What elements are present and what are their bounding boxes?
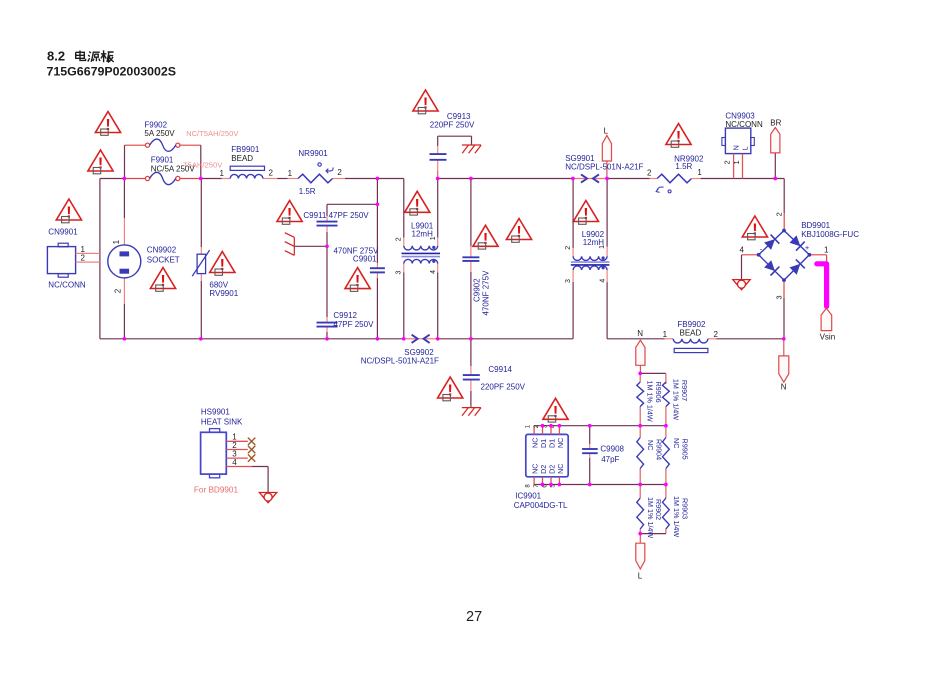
svg-text:1: 1 <box>220 169 225 178</box>
svg-text:5A 250V: 5A 250V <box>144 129 175 138</box>
svg-text:F9902: F9902 <box>144 120 167 129</box>
svg-text:1: 1 <box>288 169 293 178</box>
svg-text:1M 1% 1/4W: 1M 1% 1/4W <box>646 497 655 538</box>
svg-text:1: 1 <box>732 160 741 164</box>
svg-text:1: 1 <box>112 239 121 244</box>
svg-text:2: 2 <box>647 169 652 178</box>
wire IC9901 bottom interconnect <box>534 484 666 486</box>
warning triangle near F9901 <box>88 150 113 174</box>
svg-text:4: 4 <box>232 458 237 467</box>
ferrite bead FB9901 <box>230 166 264 178</box>
svg-text:NR9901: NR9901 <box>298 149 328 158</box>
svg-text:L: L <box>604 127 609 136</box>
junction dots C9908 <box>588 424 592 487</box>
fuse F9902 <box>145 139 180 151</box>
warning triangle near CN9901 <box>56 199 81 223</box>
svg-text:2: 2 <box>269 168 274 177</box>
svg-text:FB9901: FB9901 <box>231 145 260 154</box>
thick magenta wire Vsin <box>817 264 827 307</box>
svg-text:47PF 250V: 47PF 250V <box>333 320 374 329</box>
svg-text:1: 1 <box>430 236 437 240</box>
chassis ground near C9911 <box>285 233 295 256</box>
svg-text:BR: BR <box>770 118 781 127</box>
svg-text:4: 4 <box>430 270 437 274</box>
svg-text:2: 2 <box>81 254 86 263</box>
warning triangle pair right of C9902 <box>473 225 498 249</box>
net flag L (top) <box>602 135 611 178</box>
warning triangle near F9902 <box>95 112 120 136</box>
svg-text:CAP004DG-TL: CAP004DG-TL <box>514 501 568 510</box>
svg-text:NC/DSPL-501N-A21F: NC/DSPL-501N-A21F <box>361 356 439 365</box>
svg-text:3: 3 <box>396 271 403 275</box>
svg-text:R9907: R9907 <box>680 380 689 401</box>
svg-text:3: 3 <box>774 295 783 299</box>
wire main live line segments <box>100 178 784 180</box>
warning triangle near C9911 <box>277 201 302 225</box>
chassis ground below C9914 <box>462 408 481 416</box>
junction dots main line <box>123 177 778 181</box>
svg-text:1.5R: 1.5R <box>299 187 316 196</box>
svg-text:CN9902: CN9902 <box>147 246 177 255</box>
warning triangle near CN9902 <box>150 268 175 292</box>
svg-text:4: 4 <box>600 279 607 283</box>
wire C9911 branch vertical <box>326 204 328 338</box>
capacitor C9908 <box>582 449 598 453</box>
svg-text:C9911 47PF 250V: C9911 47PF 250V <box>303 211 369 220</box>
junction dot C9911 top link <box>376 202 380 206</box>
junction dots IC9901 pins <box>541 424 562 487</box>
choke L9901 <box>402 246 441 264</box>
svg-text:1: 1 <box>81 245 86 254</box>
IC9901 pin names bottom row <box>531 464 565 474</box>
net flag L (bottom) <box>636 534 645 569</box>
svg-text:R9905: R9905 <box>681 439 690 460</box>
svg-text:For BD9901: For BD9901 <box>194 486 239 495</box>
svg-text:Vsin: Vsin <box>820 332 836 341</box>
svg-text:BEAD: BEAD <box>680 329 702 338</box>
bridge rectifier BD9901 <box>757 229 812 282</box>
svg-text:SOCKET: SOCKET <box>147 255 180 264</box>
wire L9902 right leg <box>606 179 608 339</box>
fuse F9901 <box>145 172 180 184</box>
spark gap SG9902 <box>412 335 430 343</box>
wire bridge pin1 stub <box>809 255 826 262</box>
resistor R9905 <box>663 438 670 469</box>
svg-text:1: 1 <box>697 168 702 177</box>
junction dot chassis link <box>325 244 329 248</box>
wire fuse top branch <box>125 145 201 178</box>
svg-text:1: 1 <box>599 245 606 249</box>
wire right bottom bus <box>607 338 784 340</box>
capacitor C9901 <box>370 268 385 272</box>
capacitor C9911 <box>317 222 338 226</box>
capacitor C9912 <box>317 323 338 327</box>
resistor NR9901 <box>298 174 333 183</box>
svg-text:2: 2 <box>774 212 783 216</box>
warning triangle near NR9902 <box>666 124 691 148</box>
svg-text:NC/5A 250V: NC/5A 250V <box>151 165 196 174</box>
IC9901 pin numbers bottom (8 7 6 5) <box>525 484 556 488</box>
net flag N (divider) <box>636 340 645 373</box>
spark gap SG9901 <box>581 174 599 182</box>
svg-text:2: 2 <box>337 168 342 177</box>
no-connect X pin1 <box>248 438 255 445</box>
resistor R9904 <box>637 438 644 469</box>
title heading 8.2 <box>47 49 114 64</box>
wire C9911 top link <box>327 203 377 205</box>
wire bridge pin4 leg to ground <box>742 255 759 280</box>
svg-text:NC/DSPL-501N-A21F: NC/DSPL-501N-A21F <box>565 163 643 172</box>
svg-text:1: 1 <box>663 330 668 339</box>
IC9901 pin names top row <box>531 438 565 448</box>
svg-text:RV9901: RV9901 <box>209 289 238 298</box>
svg-text:IC9901: IC9901 <box>515 492 541 501</box>
resistor NR9902 <box>657 174 692 183</box>
resistor R9903 <box>663 498 670 529</box>
warning triangle near C9913 <box>413 90 438 114</box>
svg-text:NC/CONN: NC/CONN <box>48 281 86 290</box>
capacitor C9914 <box>463 375 480 380</box>
warning triangle near IC9901 <box>543 398 568 422</box>
capacitor C9913 <box>430 154 447 160</box>
heat sink HS9901 <box>201 429 252 478</box>
wire HS pin4 to ground <box>252 467 268 493</box>
net flag Vsin <box>821 308 832 330</box>
socket CN9902 <box>108 245 141 278</box>
svg-text:C9902: C9902 <box>473 278 482 302</box>
wire divider left branch <box>639 373 641 533</box>
wire left vertical drop CN9901 <box>99 179 101 339</box>
svg-text:1: 1 <box>824 246 829 255</box>
warning triangle near RV9901 <box>210 252 235 276</box>
wire C9902 vertical <box>470 179 472 339</box>
svg-text:1M 1% 1/4W: 1M 1% 1/4W <box>672 379 681 420</box>
wire bridge pin2 leg <box>783 179 785 231</box>
svg-text:715G6679P02003002S: 715G6679P02003002S <box>47 65 177 79</box>
wire IC9901 top interconnect <box>534 425 666 427</box>
svg-text:2: 2 <box>396 237 403 241</box>
svg-text:L: L <box>741 146 750 150</box>
wire L9901 left leg <box>403 179 405 339</box>
svg-text:L: L <box>638 572 643 581</box>
svg-text:C9914: C9914 <box>488 365 512 374</box>
svg-text:1M 1% 1/4W: 1M 1% 1/4W <box>672 496 681 537</box>
svg-text:N: N <box>637 329 643 338</box>
svg-text:N: N <box>732 145 741 150</box>
svg-text:NC/CONN: NC/CONN <box>725 120 763 129</box>
svg-text:27: 27 <box>466 609 482 625</box>
svg-text:CN9901: CN9901 <box>48 227 78 236</box>
warning triangle near L9901 <box>405 191 430 215</box>
earth ground at bridge pin4 <box>733 280 750 290</box>
svg-text:47pF: 47pF <box>601 455 619 464</box>
wire RV9901 vertical <box>200 179 202 339</box>
svg-text:F9901: F9901 <box>151 156 174 165</box>
varistor RV9901 <box>192 250 209 276</box>
svg-text:220PF 250V: 220PF 250V <box>481 382 526 391</box>
svg-text:C9901: C9901 <box>353 255 377 264</box>
svg-text:KBJ1008G-FUC: KBJ1008G-FUC <box>801 230 859 239</box>
svg-text:NC: NC <box>646 440 655 450</box>
svg-text:C9912: C9912 <box>333 311 357 320</box>
junction dots divider chain <box>638 372 667 536</box>
svg-text:2: 2 <box>565 246 572 250</box>
resistor R9902 <box>637 498 644 529</box>
svg-text:2: 2 <box>113 288 122 293</box>
no-connect X pin2 <box>248 446 255 453</box>
svg-text:NC/T5AH/250V: NC/T5AH/250V <box>186 129 239 138</box>
net flag N (bridge leg) <box>779 339 789 382</box>
svg-text:N: N <box>781 383 787 392</box>
chassis ground near C9913 <box>462 145 481 153</box>
svg-text:8.2: 8.2 <box>47 49 65 64</box>
ferrite bead FB9902 <box>673 339 708 353</box>
NR9901 thermistor mark <box>318 163 333 173</box>
svg-text:NC: NC <box>556 464 565 474</box>
wire C9914 vertical <box>470 339 472 408</box>
NR9902 thermistor mark <box>656 187 671 193</box>
warning triangle near C9914 <box>438 377 463 401</box>
IC9901 <box>526 426 568 485</box>
wire C9913 branch <box>438 136 472 178</box>
connector CN9901 <box>47 243 100 277</box>
wire C9908 vertical <box>589 426 591 485</box>
svg-text:R9903: R9903 <box>680 498 689 519</box>
junction dots bottom bus <box>123 337 786 341</box>
warning triangle near C9901 <box>345 268 370 292</box>
IC9901 pin numbers top (1 2 3 4) <box>525 424 556 428</box>
connector CN9903 <box>722 128 754 178</box>
wire bridge pin3 leg <box>783 280 785 339</box>
wire chassis link <box>294 245 327 247</box>
svg-text:220PF 250V: 220PF 250V <box>430 120 475 129</box>
resistor R9907 <box>663 382 670 407</box>
svg-text:470NF 275V: 470NF 275V <box>481 270 490 316</box>
wire divider right branch <box>640 373 666 533</box>
svg-text:1.5R: 1.5R <box>675 162 692 171</box>
wire neutral bottom bus <box>100 338 573 340</box>
svg-text:2: 2 <box>722 160 731 164</box>
svg-text:BEAD: BEAD <box>231 154 253 163</box>
wire L9902 left leg <box>572 179 574 339</box>
warning triangle near L9902 <box>573 201 598 225</box>
svg-text:4: 4 <box>740 246 745 255</box>
svg-text:1M 1% 1/4W: 1M 1% 1/4W <box>646 381 655 422</box>
svg-text:BD9901: BD9901 <box>801 221 830 230</box>
no-connect X pin3 <box>248 454 255 461</box>
resistor R9906 <box>637 382 644 407</box>
svg-text:HEAT SINK: HEAT SINK <box>201 418 243 427</box>
capacitor C9902 <box>462 257 479 261</box>
net flag BR <box>771 128 780 179</box>
choke L9902 <box>571 256 610 270</box>
svg-text:NC: NC <box>556 438 565 448</box>
svg-text:R9906: R9906 <box>654 382 663 403</box>
warning triangle near BD9901 <box>742 216 767 240</box>
svg-text:C9908: C9908 <box>600 444 624 453</box>
svg-text:+: + <box>805 243 810 252</box>
wire C9901 vertical <box>376 179 378 339</box>
wire L9901 right leg <box>437 179 439 339</box>
svg-text:3: 3 <box>565 279 572 283</box>
wire socket vertical <box>123 179 125 339</box>
svg-text:NC: NC <box>672 438 681 448</box>
svg-text:HS9901: HS9901 <box>201 408 230 417</box>
earth ground at HS9901 <box>259 493 276 503</box>
svg-text:2: 2 <box>714 330 719 339</box>
